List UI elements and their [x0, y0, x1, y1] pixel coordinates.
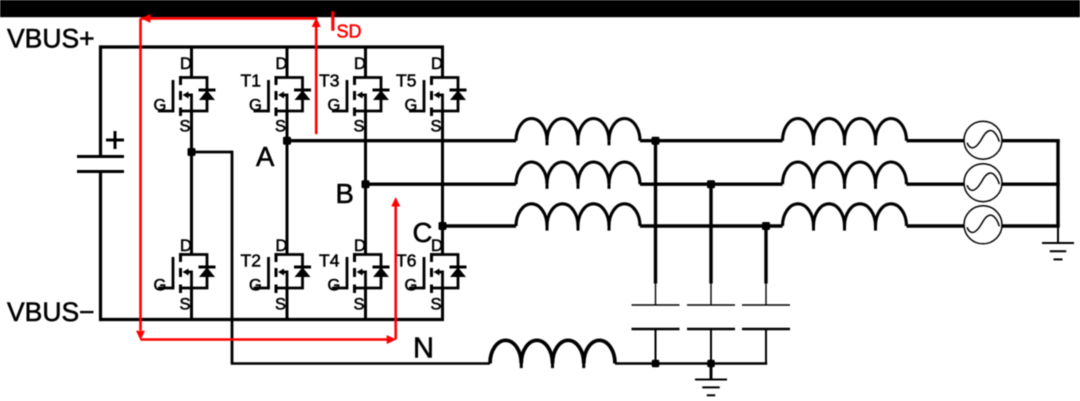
svg-text:T4: T4 — [319, 251, 340, 271]
svg-text:T1: T1 — [241, 71, 261, 91]
svg-text:G: G — [328, 277, 341, 295]
wire: right rail vertical — [1056, 141, 1059, 243]
inductor L1a (phase A filter) — [516, 119, 640, 146]
wire: phase A after L1a — [640, 139, 783, 142]
node A junction dot — [283, 137, 291, 145]
node C junction dot — [439, 222, 447, 230]
label T3 — [319, 71, 339, 91]
svg-text:D: D — [180, 55, 192, 73]
label I_SD current — [329, 6, 362, 42]
svg-text:G: G — [249, 96, 262, 114]
wire: phase C after L1c — [640, 224, 783, 227]
wire: bridge leg 3 vertical — [364, 47, 367, 320]
junction dot Cf_b on neutral — [707, 360, 715, 368]
wire: phase C to filter inductor — [443, 224, 517, 227]
transistor T1 (upper MOSFET w/ body diode, pins D G S) — [249, 55, 311, 135]
ground (grid neutral) — [1042, 243, 1074, 259]
label T2 — [241, 251, 261, 271]
red wire: I_SD loop top — [141, 14, 318, 23]
svg-text:S: S — [275, 117, 286, 135]
label node B — [336, 178, 354, 209]
svg-text:VBUS+: VBUS+ — [7, 24, 95, 54]
inductor L1b (phase B filter) — [516, 162, 640, 189]
red wire: I_SD loop left — [136, 18, 145, 340]
label node N — [413, 333, 434, 365]
wire: phase B after L1b — [640, 182, 783, 185]
wire: neutral line after Ln — [615, 362, 767, 365]
svg-text:A: A — [256, 141, 275, 172]
red arrow: current up into top loop — [312, 18, 321, 134]
svg-text:SD: SD — [337, 22, 362, 42]
label T6 — [396, 251, 416, 271]
transistor T5 (upper MOSFET w/ body diode, pins D G S) — [405, 55, 467, 135]
ground (neutral star point) — [695, 364, 727, 396]
svg-text:G: G — [328, 96, 341, 114]
label T5 — [396, 71, 416, 91]
svg-text:G: G — [249, 277, 262, 295]
label T1 — [241, 71, 261, 91]
capacitor Cf_b (filter cap phase B) — [687, 184, 735, 363]
wire: Vb to right rail — [1002, 182, 1060, 185]
capacitor Cf_c (filter cap phase C) — [742, 226, 790, 364]
wire: neutral line to inductor — [232, 362, 490, 365]
wire: phase B to filter inductor — [366, 182, 517, 185]
wire: left DC rail lower — [99, 172, 102, 322]
AC source Vb (grid phase B) — [964, 164, 1002, 202]
svg-text:T3: T3 — [319, 71, 339, 91]
junction dot A-cap on phase A — [652, 137, 660, 145]
wire: neutral vertical drop — [231, 151, 234, 365]
wire: phase B to source Vb — [907, 182, 965, 185]
junction dot B-cap on phase B — [707, 180, 715, 188]
label node A — [256, 141, 275, 172]
svg-text:D: D — [431, 237, 443, 255]
wire: VBUS- bottom bus — [101, 318, 445, 321]
svg-text:S: S — [431, 117, 442, 135]
svg-text:S: S — [354, 117, 365, 135]
wire: left DC rail upper — [99, 45, 102, 156]
junction dot Cf_a on neutral — [652, 360, 660, 368]
transistor T4 (lower MOSFET w/ body diode, pins D G S) — [328, 237, 390, 314]
svg-text:I: I — [329, 6, 337, 37]
svg-text:T6: T6 — [396, 251, 416, 271]
wire: bridge leg 4 vertical — [441, 47, 444, 320]
svg-text:S: S — [275, 296, 286, 314]
wire: Va to right rail — [1002, 139, 1060, 142]
wire: neutral tap horizontal — [192, 151, 233, 154]
wire: Vc to right rail — [1002, 224, 1060, 227]
AC source Va (grid phase A) — [964, 121, 1002, 159]
wire: bridge leg 2 vertical — [286, 47, 289, 320]
label node C — [413, 217, 433, 248]
label VBUS- — [7, 297, 95, 327]
wire: VBUS+ top bus — [101, 45, 445, 48]
svg-text:G: G — [405, 277, 418, 295]
inductor L2b (phase B grid side) — [783, 162, 907, 189]
svg-text:T5: T5 — [396, 71, 416, 91]
transistor upper switch leg1 (upper MOSFET w/ body diode, pins D G S) — [154, 55, 216, 135]
svg-text:B: B — [336, 178, 354, 209]
node B junction dot — [362, 180, 370, 188]
svg-text:D: D — [180, 237, 192, 255]
svg-text:D: D — [354, 237, 366, 255]
svg-text:S: S — [180, 117, 191, 135]
svg-text:S: S — [354, 296, 365, 314]
transistor T6 (lower MOSFET w/ body diode, pins D G S) — [405, 237, 467, 314]
wire: phase A to filter inductor — [287, 139, 516, 142]
inductor L2a (phase A grid side) — [783, 119, 907, 146]
AC source Vc (grid phase C) — [964, 206, 1002, 244]
junction dot C-cap on phase C — [762, 222, 770, 230]
svg-text:G: G — [405, 96, 418, 114]
svg-text:VBUS−: VBUS− — [7, 297, 95, 327]
svg-text:D: D — [276, 237, 288, 255]
wire: bridge leg 1 vertical — [190, 47, 193, 320]
inductor Ln (neutral filter) — [490, 340, 615, 368]
label VBUS+ — [7, 24, 95, 54]
label T4 — [319, 251, 340, 271]
svg-text:G: G — [154, 277, 167, 295]
svg-text:T2: T2 — [241, 251, 261, 271]
svg-text:S: S — [431, 296, 442, 314]
svg-text:D: D — [276, 55, 288, 73]
inductor L1c (phase C filter) — [516, 204, 640, 231]
svg-text:C: C — [413, 217, 433, 248]
svg-text:D: D — [431, 55, 443, 73]
svg-text:S: S — [180, 296, 191, 314]
wire: phase C to source Vc — [907, 224, 965, 227]
red wire: I_SD loop bottom — [141, 335, 397, 344]
transistor T3 (upper MOSFET w/ body diode, pins D G S) — [328, 55, 390, 135]
inductor L2c (phase C grid side) — [783, 204, 907, 231]
wire: phase A to source Va — [907, 139, 965, 142]
node N junction dot (leg1 midpoint) — [188, 148, 196, 156]
svg-text:G: G — [154, 96, 167, 114]
transistor lower switch leg1 (lower MOSFET w/ body diode, pins D G S) — [154, 237, 216, 314]
black banner bar — [0, 0, 1080, 17]
transistor T2 (lower MOSFET w/ body diode, pins D G S) — [249, 237, 311, 314]
svg-text:N: N — [413, 333, 434, 365]
capacitor C_dc (DC link, + marked) — [77, 131, 124, 172]
svg-text:D: D — [354, 55, 366, 73]
capacitor Cf_a (filter cap phase A) — [632, 141, 680, 364]
red arrow: current up into node B — [391, 197, 400, 340]
